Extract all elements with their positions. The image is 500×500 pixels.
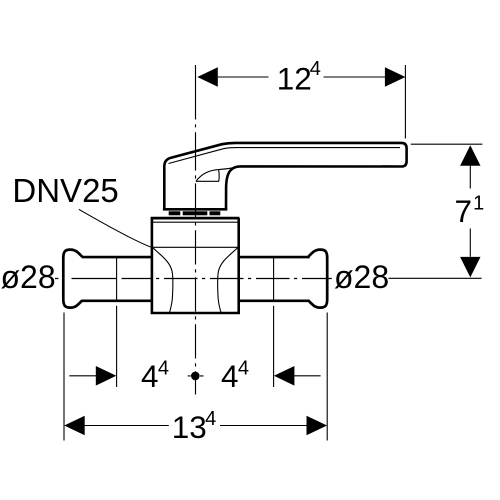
handle thumb-scoop base line: [196, 180, 219, 182]
svg-text:DNV25: DNV25: [12, 172, 118, 209]
svg-text:4: 4: [238, 357, 249, 379]
bonnet flange lower line: [151, 221, 239, 223]
body inner curve right: [218, 248, 238, 313]
dimension 4^4 left arrow: [96, 366, 117, 386]
dimension 4^4 right arrow: [274, 366, 295, 386]
bonnet flange top edge: [151, 217, 240, 220]
svg-text:7: 7: [455, 193, 473, 229]
leader line DNV25: [79, 209, 154, 248]
dimension 13^4 arrow left: [64, 416, 85, 436]
dimension 4^4 right extension line: [273, 306, 275, 387]
left press-fitting bell: [63, 250, 82, 308]
dimension 13^4 extension line right: [326, 313, 328, 441]
dimension 12^4 extension line right: [404, 65, 406, 139]
dimension 12^4 arrow right: [385, 67, 406, 87]
svg-text:4: 4: [158, 357, 169, 379]
dimension 4^4 left extension line: [116, 306, 118, 387]
dimension 13^4 arrow right: [307, 416, 328, 436]
center mark dot: [191, 372, 200, 381]
svg-text:4: 4: [205, 408, 216, 430]
dimension 12^4 line: [218, 76, 385, 78]
centerline vertical (valve axis, dash-dot): [195, 65, 197, 395]
dimension 4^4 right tail line: [293, 375, 320, 377]
center mark side dashes: [188, 375, 204, 377]
svg-text:13: 13: [172, 409, 207, 445]
lever handle outline: [164, 143, 406, 210]
stem nut segments: [169, 211, 221, 215]
centerline horizontal (pipe axis, dash-dot): [55, 278, 332, 280]
svg-text:4: 4: [141, 358, 159, 394]
left pipe walls: [82, 257, 152, 301]
handle hub bottom edge: [163, 208, 227, 211]
handle thumb-scoop upper arc: [196, 167, 236, 181]
dimension 7^1 arrow up: [460, 145, 480, 166]
dimension 7^1 extension line top: [411, 143, 483, 145]
dimension 4^4 left tail line: [69, 375, 97, 377]
svg-text:4: 4: [221, 358, 239, 394]
dimension 7^1 line: [469, 166, 471, 257]
valve body outline: [152, 218, 239, 313]
right insertion-depth mark: [273, 258, 275, 300]
handle top inner contour line: [169, 148, 401, 164]
dimension 7^1 arrow down: [460, 257, 480, 278]
svg-text:ø28: ø28: [334, 259, 389, 295]
body inner curve left: [153, 248, 173, 313]
svg-text:12: 12: [277, 60, 312, 96]
right press-fitting bell: [308, 250, 327, 308]
svg-text:ø28: ø28: [1, 259, 56, 295]
svg-text:4: 4: [310, 58, 321, 80]
dimension 13^4 extension line left: [63, 313, 65, 441]
dimension 7^1 extension line bottom: [389, 277, 482, 279]
dimension 13^4 line: [84, 425, 307, 427]
handle thumb-scoop right edge: [218, 170, 221, 182]
left insertion-depth mark: [116, 258, 118, 300]
svg-text:1: 1: [473, 192, 484, 214]
dimension 12^4 arrow left: [197, 67, 218, 87]
body neck line: [153, 246, 238, 248]
right pipe walls: [239, 257, 310, 301]
